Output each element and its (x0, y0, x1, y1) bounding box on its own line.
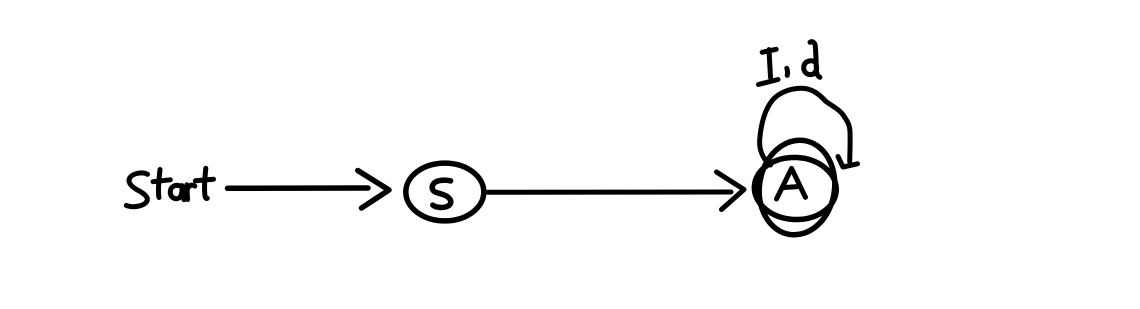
letter d stem (810, 42, 820, 78)
letter r arch (187, 185, 195, 190)
self-loop on A (760, 88, 851, 165)
label "I,d" letter I top bar (762, 49, 776, 52)
letter t2 stem (205, 168, 208, 198)
letter I bottom bar (759, 80, 779, 85)
letter r stem (184, 185, 190, 200)
self-loop arrow head (838, 157, 858, 168)
state A outer ellipse (tilted) (753, 135, 842, 241)
transition arrow S to A head (717, 172, 745, 210)
state A inner ellipse (753, 155, 838, 221)
start arrow shaft (228, 185, 369, 191)
letter A right foot dot (803, 195, 808, 200)
label "Start" (126, 168, 213, 206)
letter I stem (769, 50, 771, 78)
comma (784, 68, 790, 75)
letter a bowl (170, 185, 182, 198)
state S ellipse (406, 163, 484, 221)
state S label (432, 180, 451, 207)
letter S of Start (126, 173, 147, 207)
letter a stem (182, 186, 184, 200)
letter t1 stem (158, 170, 160, 198)
transition arrow S to A shaft (488, 190, 731, 195)
letter t2 crossbar (195, 179, 213, 181)
letter d bowl (804, 61, 817, 75)
letter A crossbar (784, 187, 800, 188)
letter t1 crossbar (153, 180, 170, 182)
state A label letter A (777, 168, 806, 199)
start arrow head (358, 171, 389, 209)
